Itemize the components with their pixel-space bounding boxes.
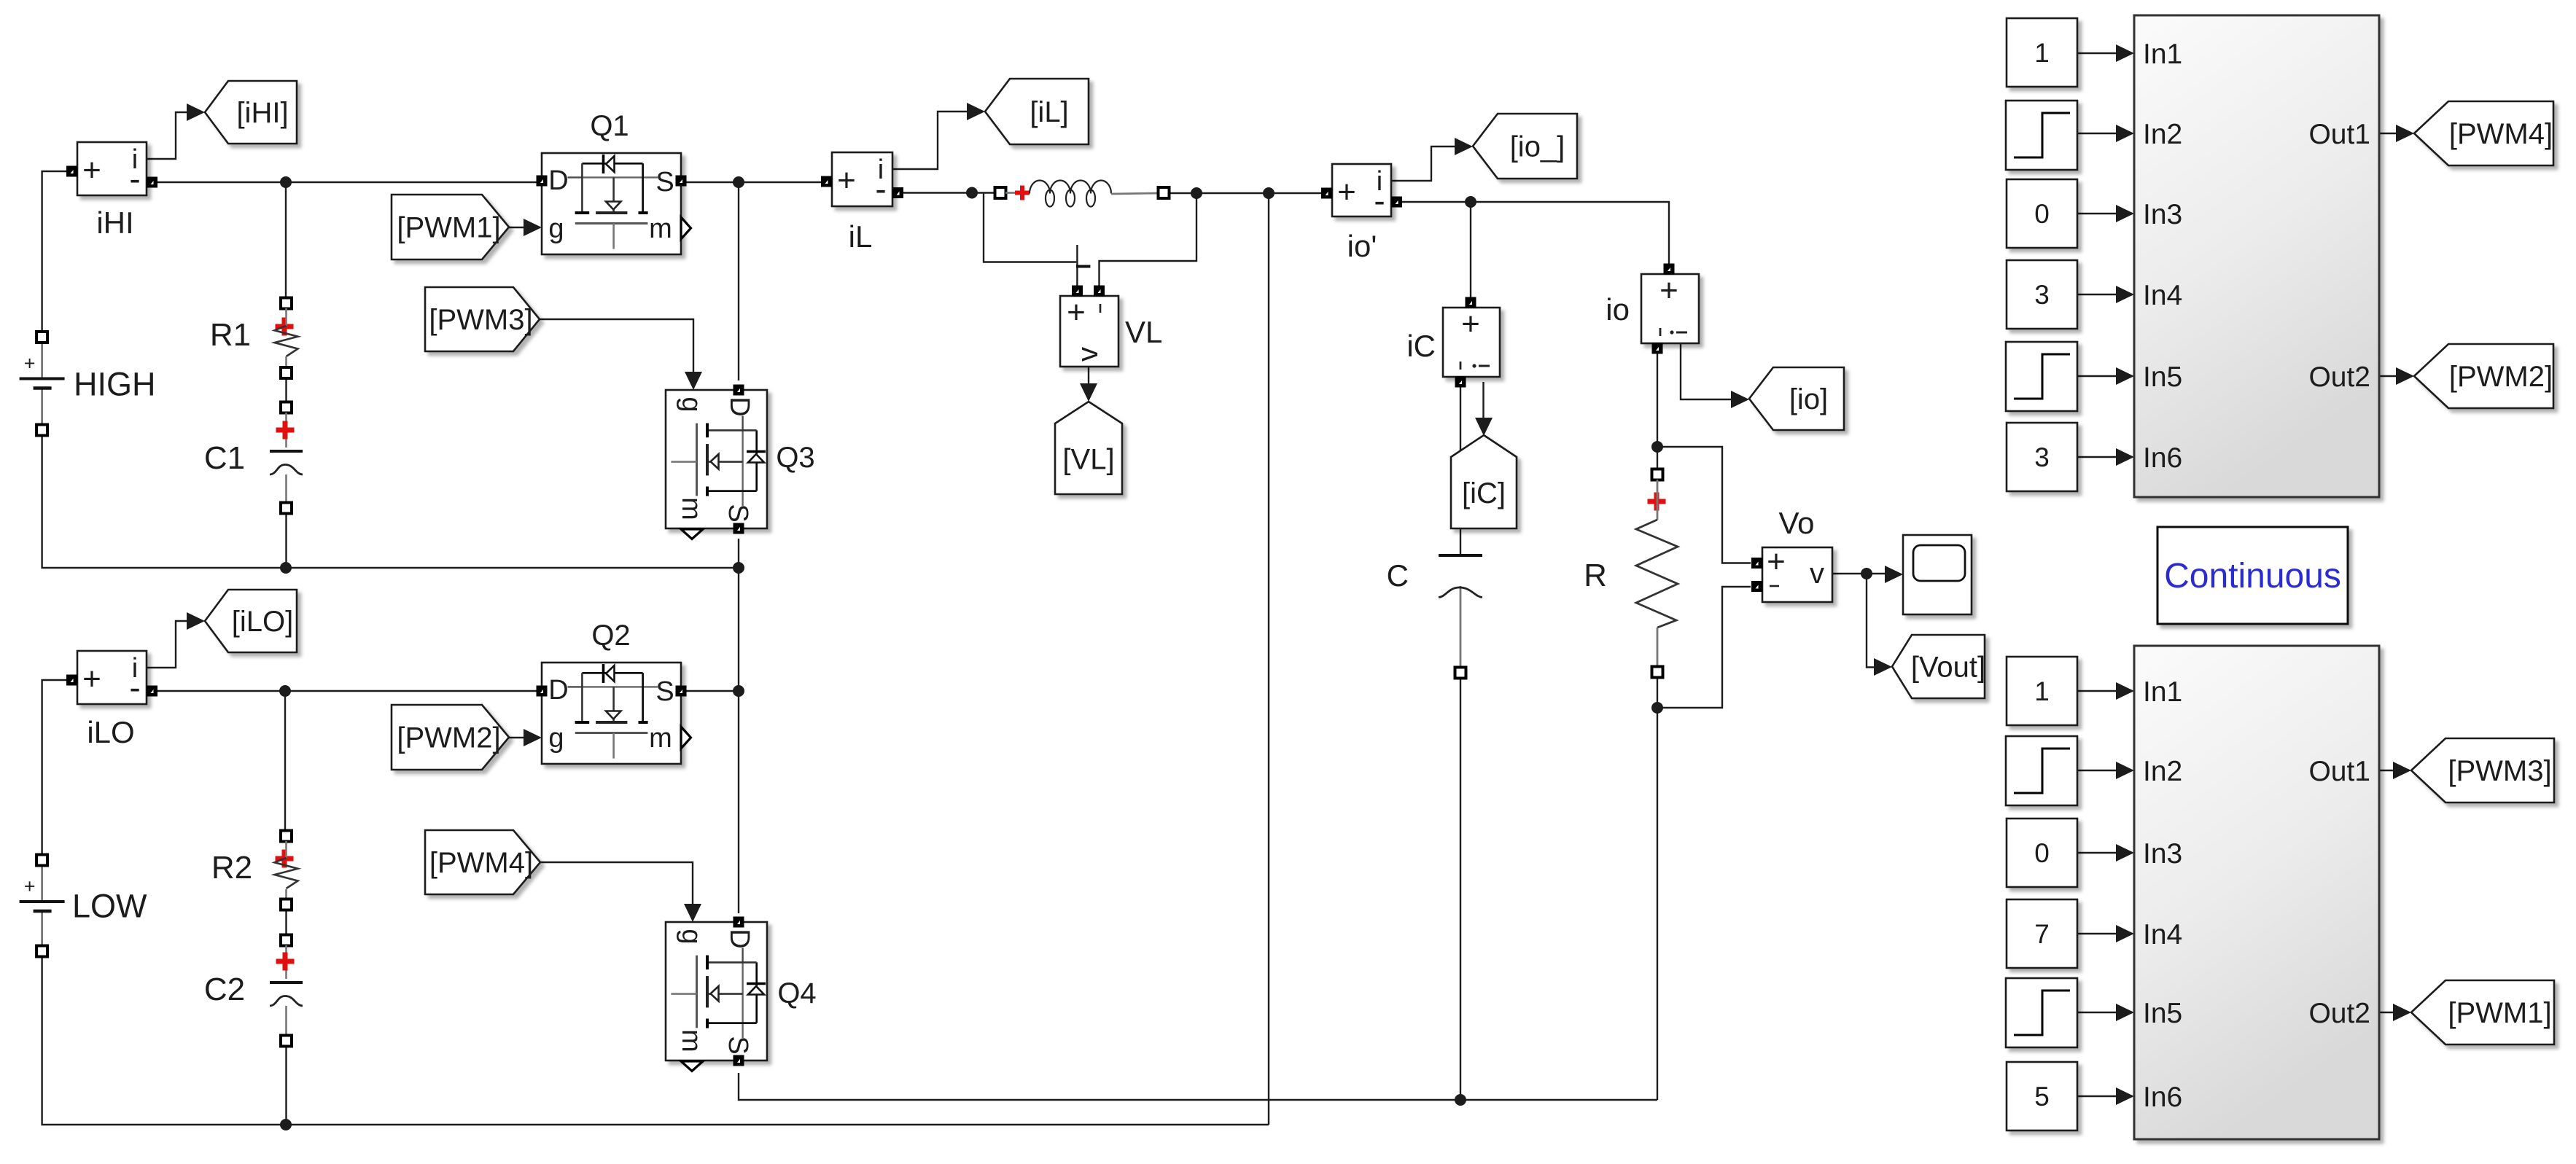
constant 5 (bottom In6): [2007, 1062, 2077, 1130]
wire const to subsystem1 In6: [2077, 448, 2134, 466]
svg-text:3: 3: [2034, 442, 2050, 472]
wire branch top bus down to Q3 D: [738, 182, 739, 380]
svg-text:LOW: LOW: [72, 888, 147, 925]
wire const to subsystem2 In6: [2077, 1087, 2134, 1105]
voltage measurement VL: [1060, 286, 1162, 367]
goto tag [PWM1] right: [2411, 980, 2554, 1044]
svg-text:In4: In4: [2143, 280, 2182, 311]
svg-text:S: S: [723, 1036, 753, 1054]
step block (bottom In5): [2006, 978, 2077, 1047]
svg-text:iLO: iLO: [87, 715, 134, 749]
svg-text:3: 3: [2034, 280, 2050, 310]
wire inductor to io' plus: [1169, 192, 1322, 194]
svg-text:S: S: [655, 167, 674, 198]
svg-text:[PWM4]: [PWM4]: [429, 847, 533, 879]
wire VL minus tap: [1100, 193, 1197, 286]
svg-text:C2: C2: [204, 972, 245, 1007]
subsystem PWM generator 1: [2134, 15, 2379, 497]
wire bus2 iLO- to Q2 D: [157, 690, 537, 692]
constant 3 (top In6): [2007, 423, 2077, 491]
wire R bottom to bottom bus: [1657, 677, 1658, 1100]
svg-text:0: 0: [2034, 199, 2050, 229]
goto tag [iL]: [985, 79, 1089, 144]
port square capacitor C bottom: [1455, 668, 1466, 679]
step block (top In5): [2006, 342, 2077, 411]
voltage measurement Vo: [1751, 506, 1832, 602]
svg-text:Q4: Q4: [777, 977, 816, 1009]
constant 0 (bottom In3): [2007, 819, 2077, 887]
svg-text:[PWM4]: [PWM4]: [2449, 118, 2553, 150]
wire C1 to rail: [285, 513, 287, 568]
capacitor C1: [204, 402, 303, 514]
svg-text:io': io': [1347, 229, 1377, 263]
wire const to subsystem2 In3: [2077, 844, 2134, 862]
from tag [PWM4]: [425, 830, 540, 894]
current measurement iLO: [66, 651, 157, 749]
wire branch to Goto Vout: [1867, 574, 1892, 676]
svg-text:R1: R1: [210, 317, 251, 353]
wire const to subsystem1 In3: [2077, 205, 2134, 222]
svg-text:Q1: Q1: [590, 110, 629, 142]
constant 1 (top In1): [2007, 18, 2077, 87]
powergui Continuous: [2157, 527, 2348, 624]
wire subsystem1 Out2 to Goto PWM2: [2379, 367, 2414, 385]
svg-text:[iC]: [iC]: [1462, 477, 1506, 509]
current measurement iHI: [66, 142, 157, 240]
svg-text:In3: In3: [2143, 838, 2182, 870]
wire HIGH minus rail: [42, 435, 739, 568]
svg-text:io: io: [1606, 292, 1630, 327]
svg-text:+: +: [837, 163, 856, 198]
svg-text:S: S: [723, 504, 753, 522]
mosfet Q4: [666, 917, 817, 1071]
goto tag [iC]: [1451, 435, 1517, 528]
wire capacitor C to bottom bus: [1460, 586, 1462, 1100]
svg-text:m: m: [676, 497, 707, 520]
svg-text:[io_]: [io_]: [1510, 131, 1565, 163]
svg-text:m: m: [676, 1029, 707, 1052]
svg-text:+: +: [1767, 544, 1786, 579]
svg-text:VL: VL: [1125, 315, 1162, 349]
wire mid node return to LOW rail: [1268, 193, 1269, 1125]
goto tag [VL]: [1055, 402, 1122, 494]
svg-text:iHI: iHI: [96, 206, 133, 240]
goto tag [iHI]: [205, 81, 297, 144]
wire Vo v to scope: [1832, 566, 1903, 583]
wire R1 to C1: [285, 378, 287, 402]
svg-text:D: D: [548, 165, 568, 196]
svg-text:[PWM1]: [PWM1]: [397, 212, 500, 244]
wire branch node down to R2: [284, 691, 286, 832]
svg-text:[iL]: [iL]: [1030, 96, 1068, 128]
svg-text:g: g: [548, 723, 564, 754]
wire node io-R to Vo plus: [1657, 447, 1751, 563]
svg-text:g: g: [676, 397, 707, 412]
constant 3 (top In4): [2007, 260, 2077, 329]
svg-text:-: -: [1374, 181, 1385, 219]
svg-text:[iLO]: [iLO]: [232, 606, 293, 638]
svg-text:-: -: [129, 160, 140, 198]
wire C2 to LOW rail: [285, 1046, 287, 1125]
wire R bottom node to Vo minus: [1657, 587, 1751, 708]
goto tag [iLO]: [205, 590, 297, 652]
constant 1 (bottom In1): [2007, 657, 2077, 725]
svg-text:In5: In5: [2143, 362, 2182, 393]
wire iLO i to Goto iLO: [147, 612, 205, 668]
mosfet Q3: [666, 385, 815, 539]
goto tag [PWM3] right: [2411, 738, 2554, 802]
svg-text:[io]: [io]: [1789, 383, 1828, 415]
wire iC minus to capacitor C: [1460, 386, 1461, 554]
svg-text:1: 1: [2034, 676, 2050, 706]
svg-text:D: D: [724, 929, 755, 948]
goto tag [PWM4] right: [2414, 101, 2553, 165]
constant 0 (top In3): [2007, 179, 2077, 248]
svg-text:m: m: [649, 214, 672, 244]
svg-text:In1: In1: [2143, 676, 2182, 708]
wire const to subsystem1 In4: [2077, 286, 2134, 303]
svg-text:+: +: [82, 152, 101, 188]
wire iHI i to Goto iHI: [147, 103, 205, 159]
mosfet Q1: [537, 110, 691, 254]
wire VL v to Goto VL: [1080, 367, 1097, 402]
svg-text:[PWM2]: [PWM2]: [397, 722, 500, 754]
resistor R: [1584, 469, 1678, 678]
constant 7 (bottom In4): [2007, 899, 2077, 968]
step block (bottom In2): [2006, 736, 2077, 805]
wire const to subsystem2 In2: [2077, 762, 2134, 779]
wire Q3 S to Q4 D column: [738, 539, 739, 913]
svg-text:Q3: Q3: [776, 442, 814, 474]
wire iC i to Goto iC: [1475, 382, 1493, 436]
svg-text:+: +: [1337, 174, 1356, 210]
svg-text:[PWM1]: [PWM1]: [2448, 997, 2551, 1029]
svg-text:v: v: [1810, 558, 1824, 590]
svg-text:g: g: [676, 929, 707, 944]
svg-text:In2: In2: [2143, 119, 2182, 150]
step block (top In2): [2006, 101, 2077, 170]
svg-text:-: -: [129, 668, 140, 706]
mosfet Q2: [537, 620, 691, 764]
capacitor C: [1387, 555, 1482, 598]
svg-text:iL: iL: [849, 219, 873, 254]
svg-text:In5: In5: [2143, 998, 2182, 1029]
svg-text:[VL]: [VL]: [1062, 444, 1114, 476]
svg-text:Out2: Out2: [2308, 998, 2370, 1029]
svg-text:iC: iC: [1406, 329, 1436, 363]
scope: [1903, 535, 1972, 614]
goto tag [io_]: [1473, 114, 1577, 179]
wire branch down to iC plus: [1470, 202, 1471, 298]
svg-text:C: C: [1387, 558, 1409, 593]
svg-text:+: +: [24, 875, 36, 897]
wire subsystem2 Out2 to Goto PWM1: [2379, 1004, 2411, 1021]
from tag [PWM2]: [392, 705, 509, 770]
from tag [PWM1]: [392, 195, 509, 259]
svg-text:m: m: [649, 723, 672, 754]
capacitor C2: [204, 935, 303, 1047]
current measurement io': [1321, 164, 1402, 263]
from tag [PWM3]: [425, 287, 540, 351]
goto tag [Vout]: [1892, 635, 1985, 698]
svg-text:R2: R2: [211, 850, 252, 886]
svg-text:D: D: [548, 675, 568, 706]
svg-text:+: +: [24, 353, 36, 375]
wire iLO plus to LOW: [42, 680, 77, 855]
svg-text:Out1: Out1: [2308, 119, 2370, 150]
svg-text:Vo: Vo: [1778, 506, 1814, 540]
goto tag [PWM2] right: [2414, 344, 2553, 408]
wire node B to VL plus tap: [984, 193, 1090, 286]
wire const to subsystem2 In5: [2077, 1004, 2134, 1021]
wire Q2 S to Q column: [686, 690, 739, 692]
svg-text:[iHI]: [iHI]: [236, 97, 288, 129]
wire LOW minus rail: [42, 956, 1269, 1125]
svg-text:g: g: [548, 214, 564, 244]
wire branch node A down to R1: [285, 182, 287, 299]
wire io' minus to io plus: [1402, 202, 1669, 265]
svg-text:v: v: [1072, 347, 1104, 362]
svg-text:HIGH: HIGH: [74, 365, 156, 402]
svg-text:[PWM3]: [PWM3]: [429, 304, 532, 336]
current measurement iC: [1406, 297, 1500, 388]
svg-text:[PWM2]: [PWM2]: [2449, 361, 2553, 393]
goto tag [io]: [1749, 367, 1844, 430]
svg-text:In6: In6: [2143, 1082, 2182, 1113]
wire iL minus to inductor: [903, 192, 996, 193]
resistor R1: [210, 298, 298, 379]
svg-text:C1: C1: [204, 440, 245, 476]
resistor R2: [211, 831, 298, 910]
svg-text:1: 1: [2034, 38, 2050, 68]
svg-text:+: +: [1067, 294, 1086, 330]
wire const to subsystem1 In1: [2077, 44, 2134, 62]
wire subsystem1 Out1 to Goto PWM4: [2379, 125, 2414, 142]
svg-text:-: -: [875, 170, 886, 208]
svg-text:In1: In1: [2143, 39, 2182, 70]
svg-text:In3: In3: [2143, 199, 2182, 230]
wire io i to Goto io: [1681, 343, 1749, 408]
svg-text:Continuous: Continuous: [2164, 557, 2341, 595]
svg-text:5: 5: [2034, 1082, 2050, 1112]
dc source HIGH: [20, 332, 156, 436]
wire Q1 S to iL plus: [686, 181, 821, 183]
svg-text:+: +: [1659, 273, 1678, 308]
wire From PWM2 to Q2 g: [509, 729, 542, 746]
svg-text:[PWM3]: [PWM3]: [2448, 755, 2551, 787]
inductor L: [995, 181, 1170, 207]
wire io' i to Goto io_: [1391, 138, 1473, 181]
svg-text:[Vout]: [Vout]: [1911, 652, 1985, 684]
svg-text:+: +: [1461, 306, 1480, 342]
wire From PWM3 to Q3 g: [540, 319, 702, 390]
dc source LOW: [20, 855, 147, 957]
wire Q4 S to bottom bus: [739, 1073, 1657, 1100]
wire io minus to R: [1657, 348, 1658, 470]
wire const to subsystem1 In5: [2077, 367, 2134, 385]
current measurement iL: [821, 152, 903, 254]
svg-text:0: 0: [2034, 838, 2050, 868]
wire const to subsystem2 In4: [2077, 925, 2134, 942]
subsystem PWM generator 2: [2134, 646, 2379, 1139]
svg-text:D: D: [724, 397, 755, 416]
wire iL i to Goto iL: [892, 103, 985, 169]
svg-text:In6: In6: [2143, 442, 2182, 474]
wire From PWM1 to Q1 g: [509, 219, 542, 236]
wire const to subsystem2 In1: [2077, 682, 2134, 700]
current measurement io: [1606, 264, 1699, 354]
svg-text:S: S: [655, 676, 674, 707]
wire const to subsystem1 In2: [2077, 125, 2134, 142]
svg-text:Q2: Q2: [591, 620, 630, 652]
svg-text:Out1: Out1: [2308, 756, 2370, 787]
svg-text:In4: In4: [2143, 919, 2182, 950]
svg-text:In2: In2: [2143, 756, 2182, 787]
wire iHI plus to HIGH: [42, 171, 77, 332]
wire R2 to C2: [285, 910, 287, 935]
svg-text:+: +: [82, 661, 101, 697]
wire top bus iHI- to Q1 D: [157, 181, 537, 183]
wire subsystem2 Out1 to Goto PWM3: [2379, 762, 2411, 779]
wire From PWM4 to Q4 g: [540, 862, 701, 922]
svg-text:R: R: [1584, 558, 1607, 593]
svg-text:Out2: Out2: [2308, 362, 2370, 393]
svg-text:7: 7: [2034, 919, 2050, 949]
